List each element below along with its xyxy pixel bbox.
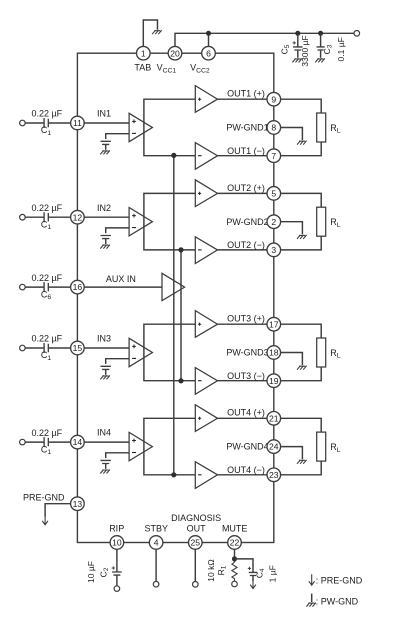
svg-text:20: 20	[170, 48, 180, 58]
capacitor C6 0.22 uF (AUX)	[44, 282, 48, 292]
svg-text:STBY: STBY	[144, 524, 168, 534]
ground PRE-GND (pin 13)	[42, 514, 48, 525]
svg-text:: PRE-GND: : PRE-GND	[316, 576, 363, 586]
pin 20 VCC1	[168, 46, 182, 60]
junction: bus B at channel 3	[178, 378, 183, 383]
ground PW-GND (pin 8)	[297, 141, 307, 145]
resistor RL channel 3	[317, 338, 326, 367]
op-amp output stage U3C (&#8722;)	[195, 368, 217, 395]
svg-text:12: 12	[73, 212, 83, 222]
op-amp output stage U2C (&#8722;)	[195, 237, 217, 264]
svg-text:22: 22	[230, 538, 240, 548]
terminal IN3 input	[20, 345, 26, 351]
wire: rail to C3	[320, 33, 322, 46]
ground PRE-GND (C4)	[250, 578, 256, 589]
wire: pin 16 to AUX amplifier	[84, 286, 162, 288]
svg-text:R1: R1	[216, 565, 228, 575]
ground PW-GND at C5	[292, 58, 302, 62]
svg-text:1: 1	[141, 48, 146, 58]
pin 16 AUX IN	[71, 280, 85, 294]
svg-text:14: 14	[73, 437, 83, 447]
op-amp input stage U4A	[129, 432, 152, 460]
capacitor C1 0.22 uF (IN3)	[44, 343, 48, 353]
pin 22 MUTE	[228, 536, 242, 550]
op-amp output stage U1B (+)	[195, 86, 217, 113]
wire: channel 3 splitter	[144, 324, 195, 381]
wire: C3 to ground	[320, 50, 322, 58]
wire: C5 to ground	[297, 50, 299, 58]
svg-text:TAB: TAB	[134, 63, 151, 73]
svg-text:0.22 µF: 0.22 µF	[31, 109, 62, 119]
svg-text:OUT3 (−): OUT3 (−)	[227, 371, 265, 381]
wire: VCC1 riser and +Vs supply rail	[175, 33, 354, 46]
svg-text:C3: C3	[322, 44, 334, 54]
wire: C2 to terminal	[116, 575, 118, 586]
svg-text:18: 18	[269, 348, 279, 358]
svg-text:13: 13	[73, 499, 83, 509]
pin 12 IN2	[71, 210, 85, 224]
ground PW-GND (channel 4 feedback)	[100, 470, 110, 474]
junction: mute node	[232, 556, 237, 561]
wire: OUT3- to pin 19	[218, 380, 268, 382]
svg-text:OUT4 (−): OUT4 (−)	[227, 465, 265, 475]
wire: coupling cap to pin 15	[48, 347, 70, 349]
op-amp input stage U3A	[129, 338, 152, 366]
resistor RL channel 4	[317, 432, 326, 461]
wire: IN2 terminal to coupling cap	[25, 216, 44, 218]
op-amp output stage U4C (&#8722;)	[195, 462, 217, 489]
ground PW-GND at TAB	[152, 30, 162, 34]
wire: OUT4+ to pin 21	[218, 417, 268, 419]
svg-text:VCC2: VCC2	[190, 63, 210, 75]
svg-text:RL: RL	[330, 217, 341, 229]
pin 7 OUT1-	[267, 149, 281, 163]
ground PW-GND (channel 2 feedback)	[100, 245, 110, 249]
svg-text:IN1: IN1	[97, 109, 111, 119]
wire: U3A inverting input to cap	[106, 359, 129, 364]
wire: load loop channel 3	[281, 324, 322, 381]
capacitor C1 0.22 uF (IN1)	[44, 118, 48, 128]
capacitor C2 10 uF	[112, 572, 122, 575]
pin 8 PW-GND1	[267, 121, 281, 135]
svg-text:15: 15	[73, 343, 83, 353]
capacitor C3 0.1 uF	[317, 47, 325, 50]
capacitor C1 0.22 uF (IN4)	[44, 437, 48, 447]
svg-text:16: 16	[73, 282, 83, 292]
svg-text:: PW-GND: : PW-GND	[316, 597, 359, 607]
svg-text:5: 5	[271, 189, 276, 199]
wire: pin 14 to amplifier input	[84, 441, 129, 443]
wire: IN3 terminal to coupling cap	[25, 347, 44, 349]
svg-text:C4: C4	[254, 568, 266, 578]
wire: bus A (ch1/ch4 inverting link)	[173, 155, 175, 474]
terminal IN2 input	[20, 214, 26, 220]
legend symbol PW-GND	[311, 594, 313, 602]
junction: bus A at channel 4	[171, 472, 176, 477]
pin 10 RIP	[110, 536, 124, 550]
pin 17 OUT3+	[267, 317, 281, 331]
wire: U1A inverting input to cap	[106, 134, 129, 139]
resistor R1 10 kOhm	[232, 562, 237, 581]
pin 25 DIAGNOSIS OUT	[189, 536, 203, 550]
wire: U4A inverting input to cap	[106, 453, 129, 458]
terminal: stand-by	[153, 581, 159, 587]
capacitor: U4A feedback to ground	[101, 460, 111, 463]
svg-text:11: 11	[73, 118, 82, 128]
terminal IN4 input	[20, 439, 26, 445]
svg-text:PW-GND1: PW-GND1	[226, 123, 268, 133]
svg-text:C1: C1	[41, 444, 52, 456]
svg-text:17: 17	[269, 319, 279, 329]
wire: OUT2- to pin 3	[218, 249, 268, 251]
svg-text:24: 24	[269, 442, 279, 452]
svg-text:0.22 µF: 0.22 µF	[31, 334, 62, 344]
junction: bus A at channel 1	[171, 153, 176, 158]
op-amp AUX buffer U5	[162, 273, 185, 300]
wire: OUT3+ to pin 17	[218, 323, 268, 325]
terminal IN1 input	[20, 120, 26, 126]
wire: pin 1 TAB to chassis ground	[143, 20, 157, 46]
svg-text:PW-GND3: PW-GND3	[226, 348, 268, 358]
svg-text:C5: C5	[279, 44, 291, 54]
capacitor: U2A feedback to ground	[101, 236, 111, 239]
wire: OUT1- to pin 7	[218, 155, 268, 157]
wire: C6 to pin 16	[48, 286, 70, 288]
wire: cap to ground (channel 3)	[105, 369, 107, 374]
svg-text:RL: RL	[330, 348, 341, 360]
wire: pin 10 to C2	[116, 549, 118, 571]
wire: load loop channel 2	[281, 193, 322, 250]
pin 13 PRE-GND	[71, 497, 85, 511]
junction: VCC2 riser on supply rail	[206, 31, 211, 36]
svg-text:AUX IN: AUX IN	[106, 274, 136, 284]
svg-text:OUT2 (+): OUT2 (+)	[227, 183, 265, 193]
svg-text:4: 4	[154, 538, 159, 548]
wire: pin 2 PW-GND2 to ground	[281, 222, 303, 235]
svg-text:IN4: IN4	[97, 428, 111, 438]
svg-text:0.22 µF: 0.22 µF	[31, 428, 62, 438]
svg-text:7: 7	[271, 151, 276, 161]
op-amp output stage U3B (+)	[195, 311, 217, 338]
svg-text:OUT: OUT	[187, 524, 207, 534]
pin 24 PW-GND4	[267, 440, 281, 454]
pin 21 OUT4+	[267, 412, 281, 426]
svg-text:3300 µF: 3300 µF	[300, 35, 310, 66]
wire: pin 12 to amplifier input	[84, 216, 129, 218]
svg-text:RL: RL	[330, 442, 341, 454]
pin 6 VCC2	[202, 46, 216, 60]
capacitor C1 0.22 uF (IN2)	[44, 212, 48, 222]
op-amp input stage U2A	[129, 208, 152, 236]
svg-text:C2: C2	[99, 567, 111, 577]
wire: cap to ground (channel 1)	[105, 144, 107, 149]
svg-text:21: 21	[269, 413, 279, 423]
pin 11 IN1	[71, 116, 85, 130]
wire: IN4 terminal to coupling cap	[25, 441, 44, 443]
capacitor: U1A feedback to ground	[101, 141, 111, 144]
svg-text:C6: C6	[41, 289, 52, 301]
pin 23 OUT4-	[267, 468, 281, 482]
wire: load loop channel 1	[281, 99, 322, 156]
svg-text:25: 25	[191, 538, 201, 548]
op-amp output stage U2B (+)	[195, 180, 217, 207]
svg-text:23: 23	[269, 470, 279, 480]
terminal: mute control (R1)	[232, 581, 238, 587]
legend symbol PRE-GND	[309, 574, 315, 585]
svg-text:OUT1 (+): OUT1 (+)	[227, 89, 265, 99]
svg-text:0.22 µF: 0.22 µF	[31, 273, 62, 283]
svg-text:OUT3 (+): OUT3 (+)	[227, 314, 265, 324]
ground PW-GND (pin 18)	[297, 366, 307, 370]
wire: load loop channel 4	[281, 418, 322, 475]
svg-text:VCC1: VCC1	[157, 63, 177, 75]
ground PW-GND (pin 24)	[297, 460, 307, 464]
terminal: ripple rejection (C2)	[114, 586, 120, 592]
pin 4 STBY	[149, 536, 163, 550]
svg-text:MUTE: MUTE	[222, 524, 248, 534]
wire: VCC2 riser	[208, 33, 210, 46]
wire: channel 2 splitter	[144, 193, 195, 250]
svg-text:OUT4 (+): OUT4 (+)	[227, 408, 265, 418]
svg-text:19: 19	[269, 376, 279, 386]
svg-text:8: 8	[271, 123, 276, 133]
svg-text:0.1 µF: 0.1 µF	[336, 37, 346, 61]
svg-text:DIAGNOSIS: DIAGNOSIS	[171, 513, 221, 523]
junction: C3 on supply rail	[318, 31, 323, 36]
svg-text:RIP: RIP	[109, 524, 124, 534]
wire: channel 4 splitter	[144, 418, 195, 475]
wire: pin 18 PW-GND3 to ground	[281, 353, 303, 366]
svg-text:OUT1 (−): OUT1 (−)	[227, 146, 265, 156]
wire: channel 1 splitter	[144, 99, 195, 156]
svg-text:10 kΩ: 10 kΩ	[206, 559, 216, 581]
svg-text:10 µF: 10 µF	[86, 561, 96, 583]
wire: pin 25 to terminal	[194, 549, 196, 581]
ground PW-GND at C3	[315, 58, 325, 62]
svg-text:10: 10	[112, 538, 122, 548]
pin 1 TAB	[137, 46, 151, 60]
svg-text:1 µF: 1 µF	[268, 565, 278, 582]
pin 3 OUT2-	[267, 243, 281, 257]
wire: rail to C5	[297, 33, 299, 46]
svg-text:6: 6	[206, 48, 211, 58]
wire: OUT2+ to pin 5	[218, 192, 268, 194]
wire: pin 11 to amplifier input	[84, 122, 129, 124]
svg-text:IN3: IN3	[97, 334, 111, 344]
ground PW-GND (channel 3 feedback)	[100, 375, 110, 379]
op-amp output stage U4B (+)	[195, 405, 217, 432]
wire: bus B (ch2/ch3 inverting link)	[180, 250, 182, 381]
svg-text:C1: C1	[41, 219, 52, 231]
op-amp output stage U1C (&#8722;)	[195, 143, 217, 170]
svg-text:9: 9	[271, 94, 276, 104]
wire: IN1 terminal to coupling cap	[25, 122, 44, 124]
terminal: +Vs supply	[354, 31, 360, 37]
capacitor: U3A feedback to ground	[101, 366, 111, 369]
pin 9 OUT1+	[267, 92, 281, 106]
wire: cap to ground (channel 2)	[105, 239, 107, 244]
op-amp input stage U1A	[129, 113, 152, 141]
pin 18 PW-GND3	[267, 346, 281, 360]
capacitor C5 3300 uF	[293, 47, 303, 50]
pin 5 OUT2+	[267, 187, 281, 201]
wire: C4 to ground	[252, 575, 254, 581]
svg-text:0.22 µF: 0.22 µF	[31, 203, 62, 213]
ground PW-GND (pin 2)	[297, 235, 307, 239]
wire: mute node branch to C4	[235, 559, 254, 572]
wire: pin 13 to PRE-GND symbol	[45, 504, 71, 517]
pin 19 OUT3-	[267, 374, 281, 388]
wire: pin 4 to terminal	[155, 549, 157, 581]
wire: coupling cap to pin 14	[48, 441, 70, 443]
svg-text:2: 2	[271, 217, 276, 227]
capacitor C4 1 uF	[249, 572, 257, 575]
resistor RL channel 2	[317, 207, 326, 236]
svg-text:3: 3	[271, 245, 276, 255]
wire: AUX terminal to C6	[25, 286, 44, 288]
svg-text:PW-GND2: PW-GND2	[226, 217, 268, 227]
terminal AUX input	[20, 284, 26, 290]
svg-text:IN2: IN2	[97, 203, 111, 213]
svg-text:OUT2 (−): OUT2 (−)	[227, 240, 265, 250]
svg-text:PRE-GND: PRE-GND	[23, 492, 65, 502]
pin 14 IN4	[71, 435, 85, 449]
resistor RL channel 1	[317, 113, 326, 142]
svg-text:C1: C1	[41, 125, 52, 137]
pin 2 PW-GND2	[267, 215, 281, 229]
svg-text:PW-GND4: PW-GND4	[226, 442, 268, 452]
wire: pin 22 to mute node	[234, 549, 236, 562]
IC package boundary box	[77, 53, 273, 542]
svg-text:RL: RL	[330, 123, 341, 135]
wire: cap to ground (channel 4)	[105, 464, 107, 469]
terminal: diagnosis output	[193, 582, 199, 588]
wire: OUT4- to pin 23	[218, 474, 268, 476]
svg-text:C1: C1	[41, 350, 52, 362]
wire: pin 24 PW-GND4 to ground	[281, 447, 303, 460]
wire: coupling cap to pin 11	[48, 122, 70, 124]
wire: pin 15 to amplifier input	[84, 347, 129, 349]
pin 15 IN3	[71, 341, 85, 355]
wire: pin 8 PW-GND1 to ground	[281, 128, 303, 141]
wire: coupling cap to pin 12	[48, 216, 70, 218]
wire: OUT1+ to pin 9	[218, 98, 268, 100]
junction: bus B at channel 2	[178, 247, 183, 252]
wire: U2A inverting input to cap	[106, 228, 129, 233]
junction: C5 on supply rail	[295, 31, 300, 36]
ground PW-GND (channel 1 feedback)	[100, 150, 110, 154]
